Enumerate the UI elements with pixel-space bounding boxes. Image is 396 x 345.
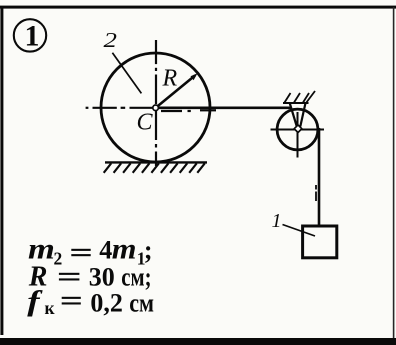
rope from pulley down to block — [318, 128, 321, 225]
leader line of label 2 — [112, 53, 141, 94]
svg-text:2: 2 — [54, 249, 63, 269]
frame right border — [393, 7, 395, 338]
horizontal centerline (dash-dot) of wheel — [86, 108, 216, 111]
radius line R with arrowhead — [156, 73, 198, 107]
ground line under wheel — [105, 161, 207, 163]
given-data text line 3: fk = 0,2 cm — [27, 287, 154, 318]
svg-text:C: C — [137, 110, 154, 136]
label C — [137, 110, 154, 136]
svg-text:0,2: 0,2 — [90, 289, 123, 318]
pulley support ceiling line — [283, 102, 309, 104]
pulley axle diamond — [294, 125, 302, 133]
rope scan artifact dashes — [315, 185, 317, 201]
vertical centerline (dash-dot) of wheel — [155, 40, 157, 166]
label R — [162, 65, 178, 91]
svg-text:m: m — [112, 232, 137, 266]
svg-text:см: см — [129, 289, 154, 318]
leader line of label 1 — [283, 225, 316, 237]
rope from wheel center to pulley — [156, 107, 292, 110]
svg-text:1: 1 — [25, 20, 40, 53]
pulley bracket left arm — [290, 103, 297, 127]
wheel 2 (cylinder) — [101, 53, 210, 162]
label 1 — [272, 210, 282, 232]
svg-text:4: 4 — [99, 236, 112, 265]
frame bottom bar — [0, 338, 396, 345]
given-data text line 1: m2 = 4m1; — [28, 232, 153, 269]
svg-text:R: R — [162, 65, 178, 91]
pulley wheel — [277, 109, 318, 150]
pulley vertical crosshair — [297, 112, 299, 158]
task number 1 — [25, 20, 40, 53]
svg-text:1: 1 — [272, 210, 282, 232]
block 1 (hanging mass) — [303, 226, 337, 258]
pulley horizontal crosshair — [271, 129, 325, 131]
label 2 — [104, 30, 117, 53]
svg-text:к: к — [45, 298, 56, 318]
ground hatching — [104, 163, 205, 173]
svg-text:m: m — [28, 232, 55, 265]
pulley support hatching — [285, 91, 316, 103]
frame left border — [0, 6, 3, 335]
svg-text:30: 30 — [89, 262, 115, 291]
wheel center hollow dot C — [153, 105, 159, 111]
task number badge circle — [14, 19, 46, 51]
svg-text:;: ; — [144, 236, 153, 265]
svg-text:см;: см; — [121, 262, 151, 291]
pulley bracket right arm — [300, 103, 305, 127]
given-data text line 2: R = 30 cm; — [28, 261, 152, 292]
frame top border — [0, 6, 396, 9]
svg-text:2: 2 — [104, 30, 117, 53]
